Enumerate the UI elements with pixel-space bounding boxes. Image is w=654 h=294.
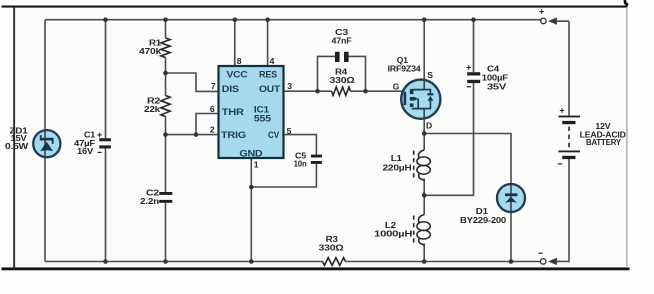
svg-text:1: 1 bbox=[254, 160, 259, 170]
inductor L2 bbox=[374, 215, 430, 246]
svg-text:4: 4 bbox=[270, 56, 275, 66]
wire top +12V rail bbox=[45, 19, 540, 21]
svg-text:G: G bbox=[393, 82, 400, 92]
wire Q1 source to rail bbox=[423, 20, 425, 90]
wire C4 top to rail bbox=[473, 20, 475, 72]
wire R4 right to gate G bbox=[351, 90, 405, 92]
svg-text:DIS: DIS bbox=[222, 84, 239, 94]
svg-text:VCC: VCC bbox=[227, 69, 249, 79]
svg-text:D: D bbox=[426, 120, 432, 130]
border frame left bbox=[13, 7, 15, 270]
diode D1 bbox=[460, 184, 525, 225]
svg-text:3: 3 bbox=[287, 81, 292, 91]
svg-text:10n: 10n bbox=[294, 159, 307, 169]
wire R2 bottom to pin 2 TRIG bbox=[166, 134, 219, 136]
wire R1 bottom to pin 7 DIS bbox=[166, 73, 219, 91]
wire battery positive lead bbox=[568, 21, 570, 115]
wire pin 4 RES to rail bbox=[267, 20, 269, 66]
border frame top bbox=[2, 6, 628, 8]
zener diode ZD1 bbox=[5, 125, 60, 157]
svg-text:0.5W: 0.5W bbox=[5, 141, 29, 151]
resistor R4 bbox=[330, 67, 355, 96]
wire C5 bottom to GND branch bbox=[251, 164, 316, 187]
svg-text:22k: 22k bbox=[144, 104, 160, 114]
wire bottom 0V rail left of R3 bbox=[45, 261, 323, 263]
wire C1 branch upper bbox=[105, 20, 107, 139]
svg-text:THR: THR bbox=[222, 107, 245, 117]
svg-text:470k: 470k bbox=[139, 46, 161, 56]
svg-text:555: 555 bbox=[254, 113, 271, 123]
wire L1/L2 node to C4 bottom bbox=[424, 83, 473, 195]
svg-text:8: 8 bbox=[237, 56, 242, 66]
wire battery arrow shaft top bbox=[553, 20, 569, 22]
svg-text:35V: 35V bbox=[487, 82, 507, 92]
wire pin 5 CV to C5 bbox=[284, 135, 317, 155]
resistor R2 bbox=[144, 95, 170, 116]
wire L2 bottom to rail bbox=[423, 244, 425, 262]
wire pin 1 GND down bbox=[250, 158, 252, 262]
wire L1 bottom to L2 top bbox=[423, 179, 425, 215]
svg-text:2: 2 bbox=[210, 125, 215, 135]
transistor Q1 IRF9Z34 MOSFET bbox=[388, 55, 441, 131]
capacitor C5 bbox=[294, 150, 322, 168]
resistor R1 bbox=[139, 38, 170, 58]
wire ZD1 left branch vertical bbox=[44, 20, 46, 262]
svg-text:TRIG: TRIG bbox=[221, 130, 246, 140]
border frame right bbox=[626, 7, 627, 268]
svg-text:220µH: 220µH bbox=[383, 163, 412, 173]
corner glyph top-right bbox=[625, 0, 628, 5]
svg-text:2.2n: 2.2n bbox=[140, 196, 159, 206]
wire branch to pin 6 THR bbox=[196, 114, 219, 135]
svg-text:IRF9Z34: IRF9Z34 bbox=[388, 63, 421, 73]
svg-text:6: 6 bbox=[210, 104, 215, 114]
capacitor C2 bbox=[140, 188, 172, 207]
border frame bottom bbox=[2, 267, 630, 270]
svg-text:330Ω: 330Ω bbox=[319, 242, 344, 252]
wire R1 R2 C2 branch bbox=[165, 20, 167, 262]
svg-text:1000µH: 1000µH bbox=[374, 228, 412, 238]
output terminal negative bbox=[539, 253, 557, 265]
svg-text:RES: RES bbox=[259, 69, 277, 79]
wire D1 to bottom rail bbox=[510, 212, 512, 262]
inductor L1 bbox=[383, 150, 431, 180]
svg-text:BATTERY: BATTERY bbox=[586, 137, 621, 147]
wire bottom 0V rail right of R3 bbox=[346, 261, 541, 263]
svg-text:7: 7 bbox=[211, 81, 216, 91]
wire C1 branch lower bbox=[105, 149, 107, 262]
resistor R3 bbox=[319, 234, 346, 265]
svg-text:BY229-200: BY229-200 bbox=[460, 215, 506, 225]
wire pin 3 OUT bbox=[284, 90, 332, 92]
capacitor C4 electrolytic bbox=[467, 63, 508, 91]
wire battery negative lead bbox=[553, 159, 569, 261]
svg-text:47nF: 47nF bbox=[332, 35, 352, 45]
svg-text:330Ω: 330Ω bbox=[330, 75, 355, 85]
svg-text:OUT: OUT bbox=[259, 84, 281, 94]
IC U1 555 timer bbox=[219, 66, 284, 159]
wire Q1 drain down to node bbox=[423, 109, 425, 150]
svg-text:16V: 16V bbox=[77, 146, 93, 156]
svg-text:S: S bbox=[427, 70, 433, 80]
wire pin 8 VCC to rail bbox=[234, 20, 236, 66]
svg-text:CV: CV bbox=[268, 130, 279, 140]
capacitor C3 bbox=[332, 27, 352, 62]
output terminal positive bbox=[539, 9, 557, 24]
wire C3 parallel loop bbox=[318, 56, 366, 91]
battery 12V lead-acid bbox=[558, 108, 626, 164]
svg-text:5: 5 bbox=[287, 126, 292, 136]
wire drain node to D1 bbox=[424, 134, 511, 185]
capacitor C1 electrolytic bbox=[74, 129, 111, 156]
svg-text:GND: GND bbox=[239, 149, 263, 159]
